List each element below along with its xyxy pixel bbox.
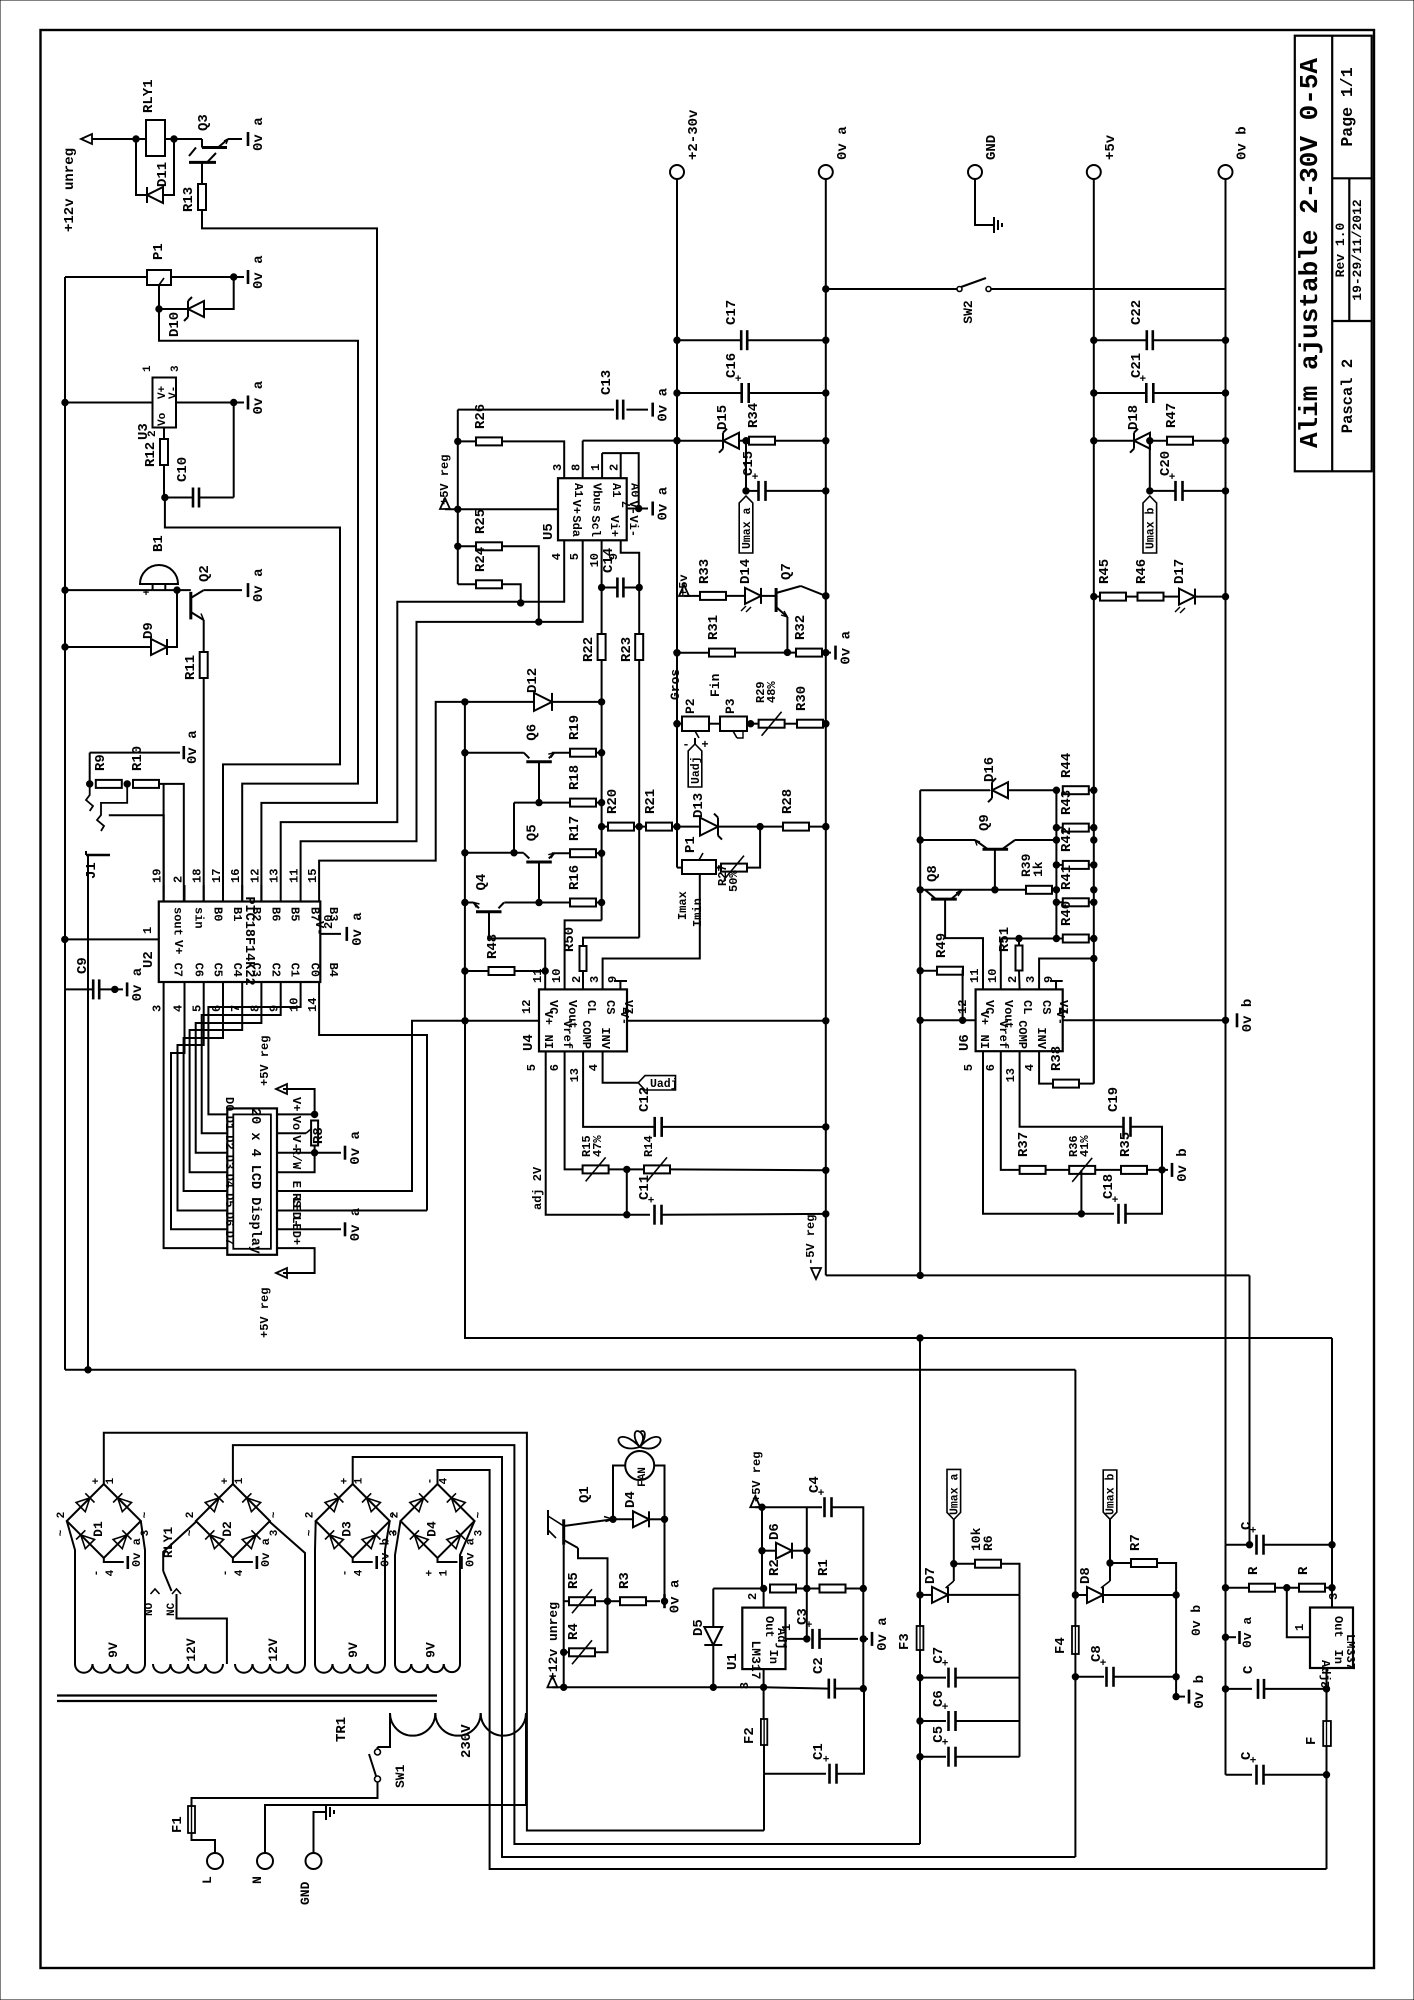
svg-text:U5: U5 xyxy=(541,523,557,540)
svg-text:10: 10 xyxy=(588,553,602,567)
svg-text:B1: B1 xyxy=(230,907,244,921)
svg-text:2: 2 xyxy=(305,1512,317,1519)
svg-text:10: 10 xyxy=(550,969,564,983)
svg-text:0v a: 0v a xyxy=(259,1538,273,1567)
svg-text:C2: C2 xyxy=(268,963,282,977)
svg-text:+: + xyxy=(425,1569,437,1576)
svg-text:2: 2 xyxy=(172,876,186,883)
svg-text:Rev 1.0: Rev 1.0 xyxy=(1333,222,1348,277)
svg-text:C: C xyxy=(1241,1665,1257,1674)
svg-text:0v a: 0v a xyxy=(251,380,267,414)
svg-text:D4: D4 xyxy=(623,1491,639,1508)
svg-text:D15: D15 xyxy=(715,405,731,430)
svg-text:50%: 50% xyxy=(727,870,741,892)
svg-text:COMP: COMP xyxy=(579,1020,593,1049)
svg-text:~: ~ xyxy=(269,1511,281,1518)
svg-text:R3: R3 xyxy=(617,1572,633,1589)
svg-text:A0: A0 xyxy=(628,483,642,497)
svg-text:LM337: LM337 xyxy=(1343,1634,1357,1670)
svg-text:-: - xyxy=(682,738,689,752)
svg-text:R19: R19 xyxy=(567,715,583,740)
svg-text:13: 13 xyxy=(568,1068,582,1082)
svg-text:D10: D10 xyxy=(167,312,183,337)
svg-text:4: 4 xyxy=(234,1569,246,1576)
svg-text:SW1: SW1 xyxy=(393,1764,408,1788)
svg-text:R16: R16 xyxy=(567,865,583,890)
svg-text:F4: F4 xyxy=(1053,1637,1069,1654)
svg-text:+: + xyxy=(91,1477,103,1484)
svg-text:48%: 48% xyxy=(765,681,779,703)
svg-text:Q5: Q5 xyxy=(524,824,540,841)
svg-text:Q7: Q7 xyxy=(779,563,795,580)
svg-text:+: + xyxy=(143,588,150,600)
svg-text:3: 3 xyxy=(588,976,602,983)
svg-text:R49: R49 xyxy=(934,933,950,958)
svg-text:NI: NI xyxy=(541,1035,555,1049)
svg-text:INV: INV xyxy=(598,1027,612,1049)
svg-text:8: 8 xyxy=(248,1005,262,1012)
svg-text:C11: C11 xyxy=(637,1175,653,1200)
svg-text:20: 20 xyxy=(322,915,336,929)
svg-text:C20: C20 xyxy=(1158,451,1174,476)
svg-text:Q6: Q6 xyxy=(524,724,540,741)
svg-text:D17: D17 xyxy=(1172,559,1188,584)
svg-text:Q9: Q9 xyxy=(977,814,993,831)
svg-text:U2: U2 xyxy=(141,951,157,968)
svg-text:COMP: COMP xyxy=(1015,1020,1029,1049)
svg-text:6: 6 xyxy=(210,1005,224,1012)
svg-text:R14: R14 xyxy=(642,1135,656,1157)
svg-text:C5: C5 xyxy=(931,1726,947,1743)
svg-text:R22: R22 xyxy=(581,637,597,662)
svg-text:D6: D6 xyxy=(767,1523,783,1540)
svg-text:P1: P1 xyxy=(151,243,167,260)
svg-text:J1: J1 xyxy=(84,862,100,879)
svg-text:0v a: 0v a xyxy=(130,967,146,1001)
svg-text:B4: B4 xyxy=(326,963,340,977)
svg-text:R11: R11 xyxy=(183,655,199,680)
svg-text:In: In xyxy=(1331,1650,1345,1664)
svg-text:R: R xyxy=(1296,1566,1312,1575)
svg-text:4: 4 xyxy=(587,1064,601,1071)
svg-text:9: 9 xyxy=(268,1005,282,1012)
svg-text:12: 12 xyxy=(956,1000,970,1014)
svg-text:Uadj: Uadj xyxy=(650,1078,678,1091)
svg-text:L: L xyxy=(200,1876,215,1884)
svg-text:B0: B0 xyxy=(211,907,225,921)
svg-text:C1: C1 xyxy=(811,1743,827,1760)
svg-text:C8: C8 xyxy=(1089,1645,1105,1662)
svg-text:12V: 12V xyxy=(184,1638,199,1662)
svg-text:1k: 1k xyxy=(1031,861,1046,877)
svg-text:R2: R2 xyxy=(767,1559,783,1576)
svg-text:~: ~ xyxy=(474,1511,486,1518)
svg-text:R10: R10 xyxy=(130,746,146,771)
svg-text:Fin: Fin xyxy=(708,673,723,697)
svg-text:11: 11 xyxy=(968,969,982,983)
svg-text:1: 1 xyxy=(354,1477,366,1484)
svg-text:R28: R28 xyxy=(780,789,796,814)
svg-text:Vi+: Vi+ xyxy=(607,515,621,537)
svg-text:R31: R31 xyxy=(706,615,722,640)
svg-text:R34: R34 xyxy=(746,403,762,428)
svg-text:R1: R1 xyxy=(816,1559,832,1576)
svg-text:0v a: 0v a xyxy=(350,912,366,946)
svg-text:7: 7 xyxy=(229,1005,243,1012)
svg-text:0v b: 0v b xyxy=(1240,999,1256,1033)
svg-text:D0: D0 xyxy=(222,1097,236,1111)
svg-text:V+: V+ xyxy=(171,940,185,954)
svg-text:Umax a: Umax a xyxy=(949,1473,962,1515)
svg-text:C0: C0 xyxy=(308,963,322,977)
svg-text:C6: C6 xyxy=(192,963,206,977)
svg-text:C1: C1 xyxy=(288,963,302,977)
svg-text:1: 1 xyxy=(589,464,603,471)
svg-text:C: C xyxy=(1239,1521,1255,1530)
svg-text:Q2: Q2 xyxy=(197,565,213,582)
svg-text:6: 6 xyxy=(984,1064,998,1071)
svg-text:10: 10 xyxy=(288,998,302,1012)
svg-text:2: 2 xyxy=(746,1593,760,1600)
svg-text:12: 12 xyxy=(248,869,262,883)
svg-text:3: 3 xyxy=(170,365,182,372)
svg-text:17: 17 xyxy=(210,869,224,883)
svg-text:CL: CL xyxy=(584,1000,598,1014)
svg-text:Vo: Vo xyxy=(157,412,169,426)
svg-text:D1: D1 xyxy=(91,1521,106,1537)
svg-text:+12v unreg: +12v unreg xyxy=(546,1602,561,1680)
svg-text:0v b: 0v b xyxy=(1175,1148,1191,1182)
svg-text:Umax a: Umax a xyxy=(741,507,754,549)
svg-text:+5v: +5v xyxy=(677,574,691,596)
svg-text:0v a: 0v a xyxy=(835,126,851,160)
svg-text:3: 3 xyxy=(474,1529,486,1536)
svg-text:R: R xyxy=(1246,1566,1262,1575)
svg-text:4: 4 xyxy=(550,553,564,560)
svg-text:D3: D3 xyxy=(222,1155,236,1169)
svg-text:4: 4 xyxy=(354,1569,366,1576)
svg-text:Pascal 2: Pascal 2 xyxy=(1339,359,1357,433)
svg-text:P3: P3 xyxy=(723,698,738,714)
svg-text:R25: R25 xyxy=(473,509,489,534)
svg-text:+: + xyxy=(340,1477,352,1484)
svg-text:CS: CS xyxy=(1039,1000,1053,1014)
svg-text:C3: C3 xyxy=(795,1608,811,1625)
svg-text:2: 2 xyxy=(570,976,584,983)
svg-text:C13: C13 xyxy=(599,370,615,395)
svg-text:R43: R43 xyxy=(1059,790,1075,815)
svg-text:D18: D18 xyxy=(1126,405,1142,430)
svg-text:+2-30v: +2-30v xyxy=(686,109,702,160)
svg-text:R48: R48 xyxy=(485,934,501,959)
svg-text:C22: C22 xyxy=(1129,300,1145,325)
svg-text:Alim ajustable 2-30V 0-5A: Alim ajustable 2-30V 0-5A xyxy=(1295,58,1325,448)
svg-text:+: + xyxy=(701,738,708,752)
svg-text:U1: U1 xyxy=(725,1653,741,1670)
svg-text:0v a: 0v a xyxy=(348,1207,364,1241)
svg-text:R9: R9 xyxy=(93,754,109,771)
svg-text:SW2: SW2 xyxy=(961,300,976,324)
svg-text:0v a: 0v a xyxy=(668,1579,684,1613)
svg-text:F2: F2 xyxy=(742,1727,758,1744)
svg-text:14: 14 xyxy=(306,998,320,1012)
svg-text:5: 5 xyxy=(962,1064,976,1071)
svg-text:C: C xyxy=(1239,1751,1255,1760)
svg-text:-: - xyxy=(340,1570,352,1577)
svg-text:FAN: FAN xyxy=(637,1467,649,1487)
svg-text:P1: P1 xyxy=(683,836,699,853)
svg-text:R23: R23 xyxy=(619,637,635,662)
svg-text:15: 15 xyxy=(306,869,320,883)
svg-text:R21: R21 xyxy=(643,789,659,814)
svg-text:F3: F3 xyxy=(897,1633,913,1650)
svg-text:3: 3 xyxy=(551,464,565,471)
svg-text:C2: C2 xyxy=(811,1657,827,1674)
svg-text:5: 5 xyxy=(525,1064,539,1071)
svg-text:+5V reg: +5V reg xyxy=(438,455,452,505)
svg-text:Sda: Sda xyxy=(569,515,583,537)
svg-text:CS: CS xyxy=(603,1000,617,1014)
svg-text:1: 1 xyxy=(234,1477,246,1484)
svg-text:LED+: LED+ xyxy=(289,1216,303,1245)
svg-text:R7: R7 xyxy=(1128,1534,1144,1551)
svg-text:1: 1 xyxy=(439,1569,451,1576)
svg-text:-: - xyxy=(91,1570,103,1577)
svg-text:2: 2 xyxy=(390,1512,402,1519)
svg-text:0v a: 0v a xyxy=(251,568,267,602)
svg-text:16: 16 xyxy=(229,869,243,883)
svg-text:R8: R8 xyxy=(311,1127,327,1144)
svg-text:3: 3 xyxy=(1024,976,1038,983)
svg-text:B6: B6 xyxy=(268,907,282,921)
svg-text:D7: D7 xyxy=(923,1567,939,1584)
svg-text:+5V reg: +5V reg xyxy=(258,1288,272,1338)
svg-text:C4: C4 xyxy=(230,963,244,977)
svg-text:R42: R42 xyxy=(1059,827,1075,852)
svg-text:Q8: Q8 xyxy=(925,865,941,882)
svg-text:Umax b: Umax b xyxy=(1145,507,1158,549)
svg-text:R41: R41 xyxy=(1059,865,1075,890)
svg-text:R46: R46 xyxy=(1134,559,1150,584)
svg-text:230V: 230V xyxy=(459,1724,475,1758)
svg-text:Q1: Q1 xyxy=(577,1486,593,1503)
svg-text:0v a: 0v a xyxy=(251,117,267,151)
svg-text:0v a: 0v a xyxy=(1240,1617,1255,1648)
svg-text:Umax b: Umax b xyxy=(1105,1473,1118,1515)
svg-text:0v a: 0v a xyxy=(185,730,201,764)
svg-text:9V: 9V xyxy=(106,1642,121,1658)
svg-text:Imax: Imax xyxy=(676,891,690,920)
svg-text:R33: R33 xyxy=(697,559,713,584)
svg-text:R45: R45 xyxy=(1097,559,1113,584)
svg-text:+5v: +5v xyxy=(1103,134,1119,160)
svg-text:GND: GND xyxy=(984,135,1000,160)
svg-text:C5: C5 xyxy=(211,963,225,977)
svg-text:D2: D2 xyxy=(222,1135,236,1149)
svg-text:Q3: Q3 xyxy=(196,114,212,131)
svg-text:A1: A1 xyxy=(571,483,585,497)
svg-text:sin: sin xyxy=(192,907,206,929)
svg-text:NI: NI xyxy=(977,1035,991,1049)
svg-text:adj 2V: adj 2V xyxy=(531,1166,545,1210)
svg-text:3: 3 xyxy=(1327,1593,1341,1600)
svg-text:R44: R44 xyxy=(1059,753,1075,778)
svg-text:13: 13 xyxy=(268,869,282,883)
svg-text:19: 19 xyxy=(151,869,165,883)
svg-text:+5V reg: +5V reg xyxy=(750,1452,764,1502)
svg-text:Scl: Scl xyxy=(588,515,602,537)
svg-text:4: 4 xyxy=(439,1477,451,1484)
svg-text:D5: D5 xyxy=(222,1193,236,1207)
svg-text:Uadj: Uadj xyxy=(690,756,703,784)
svg-text:0v b: 0v b xyxy=(1235,126,1251,160)
svg-text:C16: C16 xyxy=(724,353,740,378)
svg-text:D9: D9 xyxy=(141,622,157,639)
svg-text:RLY1: RLY1 xyxy=(141,79,157,113)
svg-text:U4: U4 xyxy=(521,1034,537,1051)
svg-text:D3: D3 xyxy=(340,1521,355,1537)
svg-text:V-: V- xyxy=(168,386,180,399)
svg-text:7: 7 xyxy=(1057,1007,1071,1014)
svg-text:11: 11 xyxy=(531,969,545,983)
svg-text:R4: R4 xyxy=(566,1623,582,1640)
svg-text:R50: R50 xyxy=(562,927,578,952)
svg-text:R6: R6 xyxy=(981,1535,996,1551)
svg-text:F1: F1 xyxy=(170,1816,186,1833)
svg-text:20 x 4 LCD Display: 20 x 4 LCD Display xyxy=(247,1108,262,1254)
svg-text:B1: B1 xyxy=(151,535,167,552)
svg-text:1: 1 xyxy=(1293,1624,1307,1631)
svg-text:R18: R18 xyxy=(567,765,583,790)
svg-text:+5V reg: +5V reg xyxy=(258,1036,272,1086)
svg-text:D1: D1 xyxy=(222,1116,236,1130)
svg-text:2: 2 xyxy=(147,430,159,437)
svg-text:D16: D16 xyxy=(982,757,998,782)
svg-text:D4: D4 xyxy=(222,1174,236,1188)
svg-text:12V: 12V xyxy=(266,1638,281,1662)
svg-text:1: 1 xyxy=(142,365,154,372)
svg-text:19-29/11/2012: 19-29/11/2012 xyxy=(1350,199,1365,301)
svg-text:-5V reg: -5V reg xyxy=(804,1215,818,1265)
svg-text:2: 2 xyxy=(56,1512,68,1519)
svg-text:R17: R17 xyxy=(567,816,583,841)
svg-text:2: 2 xyxy=(1006,976,1020,983)
svg-text:Vo: Vo xyxy=(289,1116,303,1130)
svg-text:3: 3 xyxy=(151,1005,165,1012)
svg-text:C3: C3 xyxy=(249,963,263,977)
svg-text:8: 8 xyxy=(570,464,584,471)
svg-text:0v a: 0v a xyxy=(656,486,672,520)
svg-text:~: ~ xyxy=(56,1529,68,1536)
svg-text:0v b: 0v b xyxy=(1192,1675,1208,1709)
svg-text:Gros: Gros xyxy=(668,669,683,700)
svg-text:47%: 47% xyxy=(591,1135,605,1157)
svg-text:B2: B2 xyxy=(249,907,263,921)
svg-text:9V: 9V xyxy=(424,1642,439,1658)
svg-text:-: - xyxy=(425,1478,437,1485)
svg-text:C19: C19 xyxy=(1106,1087,1122,1112)
svg-text:A1: A1 xyxy=(609,483,623,497)
svg-text:3: 3 xyxy=(738,1682,752,1689)
svg-text:0v a: 0v a xyxy=(130,1538,144,1567)
svg-text:R24: R24 xyxy=(473,547,489,572)
svg-text:9V: 9V xyxy=(346,1642,361,1658)
svg-text:D12: D12 xyxy=(525,668,541,693)
svg-text:C7: C7 xyxy=(171,963,185,977)
svg-text:C18: C18 xyxy=(1101,1174,1117,1199)
svg-text:1: 1 xyxy=(780,1624,794,1631)
svg-text:R26: R26 xyxy=(473,404,489,429)
svg-text:V+: V+ xyxy=(289,1097,303,1111)
svg-text:Vbus: Vbus xyxy=(590,483,604,512)
svg-text:0v a: 0v a xyxy=(656,387,672,421)
svg-text:5: 5 xyxy=(191,1005,205,1012)
svg-text:Vref: Vref xyxy=(996,1020,1010,1049)
svg-text:C17: C17 xyxy=(724,300,740,325)
svg-text:6: 6 xyxy=(548,1064,562,1071)
svg-text:0v b: 0v b xyxy=(1189,1605,1204,1636)
svg-text:Imin: Imin xyxy=(691,898,705,927)
svg-text:4: 4 xyxy=(1023,1064,1037,1071)
svg-text:12: 12 xyxy=(520,1000,534,1014)
svg-text:V+: V+ xyxy=(569,500,583,514)
svg-text:sout: sout xyxy=(171,907,185,936)
svg-text:Q4: Q4 xyxy=(474,874,490,891)
svg-text:Out: Out xyxy=(762,1616,776,1638)
svg-text:1: 1 xyxy=(141,927,155,934)
svg-text:P2: P2 xyxy=(683,698,698,714)
svg-text:D8: D8 xyxy=(1078,1567,1094,1584)
svg-text:R12: R12 xyxy=(143,442,159,467)
svg-text:C14: C14 xyxy=(601,548,617,573)
svg-text:GND: GND xyxy=(298,1881,313,1905)
svg-text:TR1: TR1 xyxy=(334,1717,350,1742)
svg-text:0v a: 0v a xyxy=(875,1617,891,1651)
svg-text:R47: R47 xyxy=(1164,403,1180,428)
svg-text:R13: R13 xyxy=(181,187,197,212)
svg-text:R35: R35 xyxy=(1118,1132,1134,1157)
svg-text:Vref: Vref xyxy=(560,1020,574,1049)
svg-text:0v a: 0v a xyxy=(251,255,267,289)
svg-text:R/W: R/W xyxy=(289,1148,303,1170)
svg-text:C10: C10 xyxy=(175,457,191,482)
svg-text:In: In xyxy=(766,1650,780,1664)
svg-text:INV: INV xyxy=(1034,1027,1048,1049)
svg-text:D6: D6 xyxy=(222,1212,236,1226)
svg-text:1: 1 xyxy=(105,1477,117,1484)
svg-text:D14: D14 xyxy=(738,559,754,584)
svg-text:C15: C15 xyxy=(741,451,757,476)
svg-text:11: 11 xyxy=(288,869,302,883)
svg-text:13: 13 xyxy=(1004,1068,1018,1082)
svg-text:C21: C21 xyxy=(1129,353,1145,378)
svg-text:~: ~ xyxy=(140,1511,152,1518)
svg-text:C7: C7 xyxy=(931,1647,947,1664)
svg-text:NO: NO xyxy=(144,1602,156,1616)
svg-text:R20: R20 xyxy=(605,789,621,814)
svg-text:R32: R32 xyxy=(793,615,809,640)
svg-text:F: F xyxy=(1304,1737,1320,1745)
svg-text:4: 4 xyxy=(172,1005,186,1012)
svg-text:N: N xyxy=(250,1876,265,1884)
svg-text:+: + xyxy=(220,1477,232,1484)
svg-text:R40: R40 xyxy=(1059,901,1075,926)
svg-text:C6: C6 xyxy=(931,1690,947,1707)
svg-text:7: 7 xyxy=(620,501,634,508)
svg-text:7: 7 xyxy=(621,1007,635,1014)
svg-text:R51: R51 xyxy=(997,927,1013,952)
svg-text:R30: R30 xyxy=(794,686,810,711)
